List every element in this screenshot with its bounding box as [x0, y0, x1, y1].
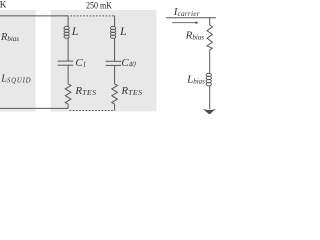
wire, branch 40 between C40 and R_TES: [114, 66, 116, 84]
wire, branch 1 top segment: [67, 15, 69, 26]
wire, branch 40 between L and C40: [114, 38, 116, 61]
arrowhead, current return direction (down): [203, 109, 216, 114]
svg-text:L: L: [119, 24, 127, 38]
capacitor C1 plates: [58, 60, 74, 62]
svg-text:Icarrier: Icarrier: [173, 6, 200, 18]
wire bottom rail: [0, 107, 68, 109]
svg-text:Rbias: Rbias: [185, 29, 205, 41]
wire, carrier feed rail (runs to right edge): [166, 17, 216, 19]
stage shading box, K stage (left, cropped): [0, 10, 36, 112]
resistor R_bias, right zigzag: [207, 25, 212, 50]
stage shading box, 250 mK stage: [51, 10, 157, 112]
svg-text:Lbias: Lbias: [186, 73, 205, 85]
inductor L, branch 40 coil: [111, 26, 116, 29]
wire, branch 1 between L and C1: [67, 38, 69, 61]
wire top rail: [0, 15, 68, 17]
wire, bias chain top segment: [209, 18, 211, 25]
resistor R_TES, branch 1 zigzag: [65, 84, 71, 104]
wire, between R_bias and L_bias: [209, 50, 211, 74]
wire, branch 1 bottom segment: [67, 104, 69, 108]
inductor L_bias coil: [206, 73, 211, 76]
wire, branch 40 bottom segment: [114, 104, 116, 111]
svg-text:250 mK: 250 mK: [86, 2, 112, 12]
inductor L, branch 1 coil: [64, 26, 69, 29]
capacitor C40 plates: [106, 60, 122, 62]
current direction arrow for I_carrier: [172, 21, 199, 24]
wire, branch 40 top segment: [114, 15, 116, 26]
svg-text:K: K: [0, 1, 7, 11]
wire dashed bottom rail continuation (branches 2..39 omitted): [70, 110, 114, 112]
resistor R_TES, branch 40 zigzag: [112, 84, 118, 104]
wire, bias chain bottom segment: [209, 86, 211, 110]
wire, branch 1 between C1 and R_TES: [67, 65, 69, 83]
svg-text:L: L: [71, 24, 79, 38]
wire dashed top rail continuation (branches 2..39 omitted): [70, 15, 114, 17]
